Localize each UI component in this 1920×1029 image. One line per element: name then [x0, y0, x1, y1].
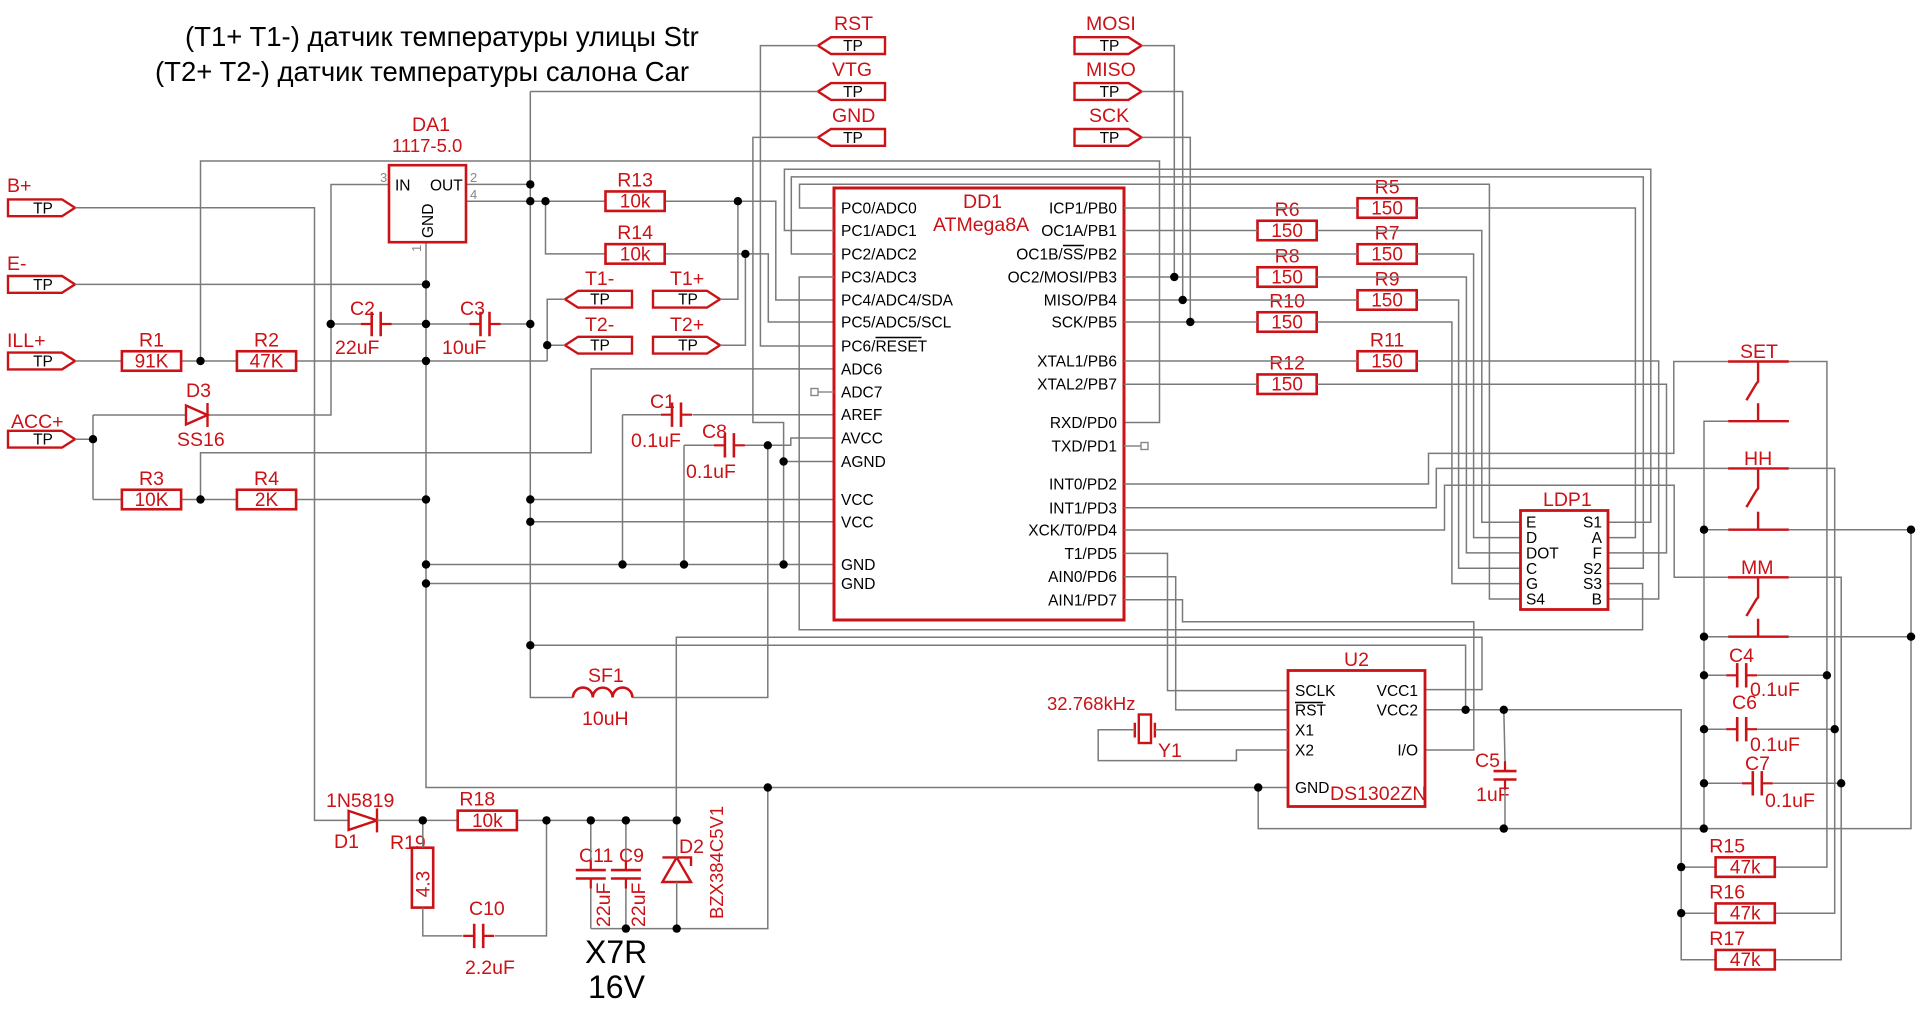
- junction: [734, 197, 742, 205]
- wire C8 right to AVCC: [745, 438, 834, 445]
- wire R10 to LDP1 G: [1317, 322, 1521, 584]
- svg-text:BZX384C5V1: BZX384C5V1: [706, 806, 727, 919]
- button MM: [1728, 577, 1789, 636]
- wire SCK TP down: [1142, 137, 1191, 322]
- wire Y1 to X2: [1098, 730, 1288, 761]
- wire T2- to ground line: [547, 344, 565, 346]
- resistor R11: [1358, 329, 1417, 372]
- svg-text:TP: TP: [1100, 84, 1120, 101]
- svg-text:47k: 47k: [1730, 858, 1761, 879]
- inductor SF1 10uH: [573, 688, 632, 698]
- svg-text:MISO: MISO: [1086, 59, 1136, 81]
- svg-text:R8: R8: [1275, 245, 1300, 267]
- svg-text:U2: U2: [1344, 649, 1369, 671]
- junction: [1700, 725, 1708, 733]
- junction: [419, 816, 427, 824]
- svg-text:TP: TP: [590, 338, 610, 355]
- junction: [526, 197, 534, 205]
- capacitor C4: [1726, 663, 1757, 687]
- resistor R19: [412, 848, 435, 908]
- wire C7 left: [1704, 782, 1742, 784]
- svg-text:ILL+: ILL+: [7, 330, 46, 352]
- wire Y1 to X1: [1155, 729, 1288, 731]
- svg-text:150: 150: [1371, 352, 1403, 373]
- wire E- to GND rail: [75, 283, 426, 285]
- svg-text:R6: R6: [1275, 199, 1300, 221]
- svg-text:R2: R2: [254, 329, 279, 351]
- svg-text:RST: RST: [834, 13, 873, 35]
- junction: [779, 560, 787, 568]
- svg-text:DD1: DD1: [963, 191, 1002, 213]
- svg-text:DS1302ZN: DS1302ZN: [1330, 783, 1426, 805]
- svg-text:R7: R7: [1375, 222, 1400, 244]
- junction: [618, 560, 626, 568]
- wire HH bottom right: [1788, 529, 1911, 531]
- svg-text:T2-: T2-: [585, 314, 614, 336]
- resistor R7: [1358, 222, 1417, 265]
- svg-text:10K: 10K: [135, 490, 169, 511]
- wire R1 to R2: [181, 360, 237, 362]
- svg-text:X1: X1: [1295, 723, 1314, 740]
- svg-text:R4: R4: [254, 468, 279, 490]
- svg-text:ADC6: ADC6: [841, 361, 882, 378]
- svg-text:C9: C9: [619, 845, 644, 867]
- wire T2+ up to SCL line: [720, 254, 745, 345]
- svg-text:D3: D3: [186, 380, 211, 402]
- svg-text:MM: MM: [1741, 557, 1774, 579]
- svg-text:D1: D1: [334, 831, 359, 853]
- svg-text:OC1A/PB1: OC1A/PB1: [1041, 223, 1117, 240]
- svg-text:R5: R5: [1375, 176, 1400, 198]
- wire R18 to battery node: [518, 819, 677, 821]
- junction: [526, 641, 534, 649]
- svg-text:0.1uF: 0.1uF: [1765, 790, 1815, 812]
- wire D2 top: [676, 820, 678, 857]
- resistor R14: [606, 222, 665, 265]
- wire PC3 to LDP1 S3: [799, 277, 1642, 630]
- svg-text:2K: 2K: [255, 490, 279, 511]
- svg-text:150: 150: [1271, 221, 1303, 242]
- wire ACC+ vertical: [92, 415, 94, 500]
- svg-text:D2: D2: [679, 836, 704, 858]
- junction: [1179, 296, 1187, 304]
- svg-text:ADC7: ADC7: [841, 385, 882, 402]
- wire C9 top: [625, 820, 627, 860]
- resistor R17: [1709, 928, 1774, 971]
- DD1 right pin labels: [1008, 201, 1118, 610]
- display LDP1: [1521, 511, 1609, 610]
- svg-text:10uH: 10uH: [582, 708, 629, 730]
- junction: [422, 357, 430, 365]
- svg-text:TP: TP: [678, 292, 698, 309]
- svg-text:VCC1: VCC1: [1377, 683, 1418, 700]
- svg-text:VCC: VCC: [841, 514, 874, 531]
- TXD no-connect marker: [1124, 443, 1148, 450]
- wire D1 to R18: [377, 819, 457, 821]
- svg-text:GND: GND: [420, 204, 437, 238]
- button HH: [1728, 468, 1789, 529]
- wire R13 to PC4/SDA: [664, 201, 834, 300]
- RTC U2 DS1302ZN: [1288, 671, 1425, 807]
- svg-text:TP: TP: [678, 338, 698, 355]
- wire PC1 to LDP1 S1: [784, 169, 1650, 522]
- svg-text:SET: SET: [1740, 341, 1778, 363]
- wire 5V to VCC: [530, 499, 834, 501]
- svg-text:1N5819: 1N5819: [326, 790, 394, 812]
- junction: [673, 924, 681, 932]
- test point ACC+: [8, 411, 75, 449]
- svg-text:T2+: T2+: [670, 314, 704, 336]
- junction: [526, 320, 534, 328]
- test point GND: [818, 105, 885, 147]
- resistor R2: [237, 329, 296, 372]
- wire RST TP to PC6/RESET: [760, 46, 834, 346]
- junction: [541, 197, 549, 205]
- wire pullup rail to R15: [1681, 866, 1716, 868]
- wire C4 right: [1757, 674, 1827, 676]
- wire OC1A to R6: [1124, 230, 1258, 232]
- junction: [1254, 783, 1262, 791]
- test point VTG: [818, 59, 885, 101]
- resistor R10: [1258, 290, 1317, 333]
- wire bottom gnd bus: [591, 928, 677, 930]
- junction: [526, 180, 534, 188]
- svg-text:R13: R13: [617, 169, 653, 191]
- wire branch to R14: [546, 201, 606, 254]
- wire ILL+ to R1: [75, 360, 123, 362]
- svg-text:R3: R3: [139, 468, 164, 490]
- resistor R1: [122, 329, 181, 372]
- junction: [1907, 633, 1915, 641]
- svg-text:SCK/PB5: SCK/PB5: [1052, 315, 1117, 332]
- svg-text:PC4/ADC4/SDA: PC4/ADC4/SDA: [841, 293, 954, 310]
- wire HH line to R16: [1775, 468, 1835, 913]
- wire C6 right: [1757, 728, 1835, 730]
- test point SCK: [1075, 105, 1142, 147]
- svg-text:DA1: DA1: [412, 114, 450, 136]
- wire pullup rail to R16: [1681, 912, 1716, 914]
- wire MISO to R9: [1124, 299, 1358, 301]
- wire MM bottom right: [1788, 636, 1911, 638]
- svg-text:S4: S4: [1526, 592, 1545, 609]
- svg-text:C5: C5: [1475, 750, 1500, 772]
- svg-text:R19: R19: [390, 832, 426, 854]
- capacitor C9: [611, 860, 641, 888]
- svg-text:TP: TP: [1100, 130, 1120, 147]
- wire R4 to GND rail: [296, 499, 426, 501]
- svg-text:22uF: 22uF: [593, 882, 615, 927]
- junction: [622, 924, 630, 932]
- wire T1+ up to SDA line: [720, 201, 738, 299]
- svg-text:47K: 47K: [250, 352, 284, 373]
- svg-text:10uF: 10uF: [442, 337, 487, 359]
- junction: [1700, 779, 1708, 787]
- resistor R16: [1709, 881, 1774, 924]
- svg-text:(T1+ T1-) датчик температуры: (T1+ T1-) датчик температуры улицы Str: [185, 21, 699, 52]
- capacitor C8: [714, 433, 745, 457]
- svg-text:2.2uF: 2.2uF: [465, 957, 515, 979]
- DD1 left pin labels: [841, 201, 954, 594]
- wire battery node to U2 VCC1: [676, 637, 1482, 820]
- svg-text:VCC2: VCC2: [1377, 703, 1418, 720]
- wire to D3 anode: [93, 414, 186, 416]
- junction: [779, 457, 787, 465]
- svg-text:SCLK: SCLK: [1295, 683, 1336, 700]
- svg-text:GND: GND: [1295, 780, 1329, 797]
- test point T1-: [565, 268, 632, 309]
- wire XCK/PD4 to MM button: [1124, 485, 1729, 577]
- junction: [196, 495, 204, 503]
- wire C2 left: [331, 323, 361, 325]
- svg-text:2: 2: [470, 170, 477, 185]
- svg-text:INT0/PD2: INT0/PD2: [1049, 477, 1117, 494]
- resistor R8: [1258, 245, 1317, 288]
- svg-text:R9: R9: [1375, 268, 1400, 290]
- svg-text:TP: TP: [33, 432, 53, 449]
- junction: [764, 783, 772, 791]
- svg-text:(T2+ T2-) датчик температуры: (T2+ T2-) датчик температуры салона Car: [155, 56, 689, 87]
- wire D3 cathode to DA1 IN: [208, 185, 390, 416]
- svg-text:AREF: AREF: [841, 407, 882, 424]
- svg-text:PC1/ADC1: PC1/ADC1: [841, 223, 917, 240]
- svg-text:TP: TP: [33, 277, 53, 294]
- svg-text:R1: R1: [139, 329, 164, 351]
- junction: [1700, 824, 1708, 832]
- svg-text:TXD/PD1: TXD/PD1: [1052, 439, 1117, 456]
- test point RST: [818, 13, 885, 55]
- junction: [741, 250, 749, 258]
- svg-text:PC0/ADC0: PC0/ADC0: [841, 201, 917, 218]
- wire U2 GND to right ground rail: [1258, 530, 1911, 829]
- svg-text:1117-5.0: 1117-5.0: [392, 135, 462, 156]
- junction: [673, 816, 681, 824]
- junction: [1700, 526, 1708, 534]
- junction: [1500, 824, 1508, 832]
- svg-text:XTAL1/PB6: XTAL1/PB6: [1037, 354, 1117, 371]
- junction: [1677, 863, 1685, 871]
- junction: [1186, 318, 1194, 326]
- svg-text:TP: TP: [33, 354, 53, 371]
- wire 5V to VCC2: [530, 521, 834, 523]
- junction: [196, 357, 204, 365]
- resistor R4: [237, 468, 296, 511]
- wire GND rail down and right to U2 GND: [426, 242, 1288, 788]
- wire R7 to LDP1 D: [1417, 254, 1521, 538]
- svg-text:AVCC: AVCC: [841, 431, 883, 448]
- test point T1+: [653, 268, 720, 309]
- svg-text:IN: IN: [395, 178, 411, 195]
- capacitor C5: [1494, 761, 1517, 789]
- wire SET bottom to ground rail: [1704, 421, 1729, 828]
- wire ICP1 to R5: [1124, 207, 1358, 209]
- svg-text:I/O: I/O: [1397, 743, 1418, 760]
- svg-text:OC2/MOSI/PB3: OC2/MOSI/PB3: [1008, 270, 1117, 287]
- wire VCC2 to pullup rail R17: [1425, 710, 1716, 960]
- wire XTAL1 to R11: [1124, 360, 1358, 362]
- svg-text:TP: TP: [843, 38, 863, 55]
- svg-text:4.3: 4.3: [414, 871, 435, 897]
- wire C1 left: [623, 414, 662, 416]
- microcontroller DD1 ATMega8A: [834, 188, 1124, 620]
- wire OC1B to R7: [1124, 253, 1358, 255]
- wire B+ to D1: [75, 208, 349, 821]
- junction: [1700, 633, 1708, 641]
- wire T1- down to ground line: [547, 299, 565, 361]
- junction: [327, 320, 335, 328]
- svg-text:C10: C10: [469, 898, 505, 920]
- svg-text:150: 150: [1271, 313, 1303, 334]
- svg-text:TP: TP: [843, 130, 863, 147]
- junction: [1677, 909, 1685, 917]
- svg-text:OC1B/SS/PB2: OC1B/SS/PB2: [1016, 247, 1117, 264]
- svg-text:4: 4: [470, 187, 477, 202]
- junction: [587, 816, 595, 824]
- resistor R13: [606, 169, 665, 212]
- svg-text:AIN1/PD7: AIN1/PD7: [1048, 592, 1117, 609]
- svg-text:R17: R17: [1709, 928, 1745, 950]
- svg-text:RXD/PD0: RXD/PD0: [1050, 415, 1118, 432]
- junction: [422, 495, 430, 503]
- svg-text:GND: GND: [841, 557, 875, 574]
- svg-text:XCK/T0/PD4: XCK/T0/PD4: [1028, 523, 1117, 540]
- wire MM bottom left: [1704, 636, 1729, 638]
- wire MISO TP down: [1142, 92, 1183, 301]
- svg-text:C2: C2: [350, 298, 375, 320]
- svg-text:ACC+: ACC+: [11, 411, 64, 433]
- wire INT0/PD2 to SET button: [1124, 362, 1729, 485]
- junction: [422, 320, 430, 328]
- svg-text:TP: TP: [843, 84, 863, 101]
- svg-text:MOSI: MOSI: [1086, 13, 1136, 35]
- wire ground hook to zener bus: [677, 788, 768, 929]
- svg-text:SF1: SF1: [588, 665, 624, 687]
- svg-text:C7: C7: [1745, 753, 1770, 775]
- svg-text:C8: C8: [702, 421, 727, 443]
- svg-text:47k: 47k: [1730, 950, 1761, 971]
- svg-text:AIN0/PD6: AIN0/PD6: [1048, 569, 1117, 586]
- svg-text:C1: C1: [650, 391, 675, 413]
- wire VTG to 5V rail: [530, 91, 818, 93]
- wire R3 to R4: [182, 499, 237, 501]
- wire C7 right: [1773, 782, 1841, 784]
- svg-text:10k: 10k: [472, 811, 503, 832]
- wire GND rail to T sensor return: [426, 360, 547, 362]
- button SET: [1728, 362, 1789, 422]
- svg-text:RST: RST: [1295, 703, 1327, 720]
- junction: [543, 341, 551, 349]
- svg-text:PC2/ADC2: PC2/ADC2: [841, 247, 917, 264]
- test point MOSI: [1075, 13, 1142, 55]
- wire D2 bottom: [676, 882, 678, 929]
- svg-text:T1-: T1-: [585, 268, 614, 290]
- junction: [764, 441, 772, 449]
- svg-text:R15: R15: [1709, 835, 1745, 857]
- wire C1 to GND line: [622, 415, 624, 565]
- svg-text:T1/PD5: T1/PD5: [1064, 546, 1117, 563]
- svg-text:PC6/RESET: PC6/RESET: [841, 339, 928, 356]
- test point MISO: [1075, 59, 1142, 101]
- junction: [1170, 273, 1178, 281]
- svg-text:10k: 10k: [620, 244, 651, 265]
- junction: [1500, 706, 1508, 714]
- wire C6 left: [1704, 728, 1726, 730]
- wire 5V rail vertical to SF1: [530, 92, 573, 698]
- wire R12 to LDP1 F: [1317, 384, 1667, 553]
- svg-text:R14: R14: [617, 222, 653, 244]
- junction: [422, 280, 430, 288]
- svg-text:PC5/ADC5/SCL: PC5/ADC5/SCL: [841, 315, 952, 332]
- svg-text:R12: R12: [1269, 352, 1305, 374]
- junction: [1700, 671, 1708, 679]
- wire ACC+ tip: [75, 438, 93, 440]
- junction: [542, 816, 550, 824]
- wire C9 bottom: [625, 889, 627, 929]
- wire PC0 to LDP1 S4: [800, 184, 1521, 599]
- svg-text:22uF: 22uF: [628, 882, 650, 927]
- wire OC2/MOSI to R8: [1124, 276, 1258, 278]
- svg-text:HH: HH: [1744, 448, 1772, 470]
- svg-text:R18: R18: [459, 789, 495, 811]
- svg-text:150: 150: [1371, 245, 1403, 266]
- svg-text:47k: 47k: [1730, 904, 1761, 925]
- wire SCK to R10: [1124, 321, 1258, 323]
- svg-text:10k: 10k: [620, 192, 651, 213]
- resistor R18: [458, 789, 517, 832]
- wire SET line to R15: [1775, 362, 1827, 868]
- diode D1 1N5819: [349, 808, 377, 832]
- wire AIN1/PD7 to U2 I/O: [1124, 600, 1474, 750]
- wire R2 to GND rail: [296, 360, 426, 362]
- wire R9 to LDP1 C: [1417, 300, 1521, 568]
- wire XTAL2 to R12: [1124, 383, 1258, 385]
- svg-text:AGND: AGND: [841, 454, 886, 471]
- svg-text:Y1: Y1: [1158, 740, 1182, 762]
- svg-text:XTAL2/PB7: XTAL2/PB7: [1037, 377, 1117, 394]
- capacitor C2: [361, 312, 392, 336]
- svg-text:OUT: OUT: [430, 178, 463, 195]
- crystal Y1 32.768kHz: [1135, 715, 1155, 744]
- svg-text:0.1uF: 0.1uF: [631, 430, 681, 452]
- svg-text:ATMega8A: ATMega8A: [933, 214, 1029, 236]
- wire node to R19: [422, 820, 424, 847]
- svg-text:SS16: SS16: [177, 429, 225, 451]
- junction: [1831, 725, 1839, 733]
- svg-text:150: 150: [1271, 268, 1303, 289]
- wire MM line to R17: [1775, 577, 1842, 959]
- svg-text:B+: B+: [7, 175, 31, 197]
- wire HH bottom left: [1704, 529, 1729, 531]
- wire to R3: [93, 499, 121, 501]
- svg-text:150: 150: [1371, 199, 1403, 220]
- wire AGND pin: [784, 461, 834, 463]
- svg-text:3: 3: [380, 170, 387, 185]
- svg-text:B: B: [1592, 592, 1602, 609]
- svg-text:PC3/ADC3: PC3/ADC3: [841, 270, 917, 287]
- svg-text:X2: X2: [1295, 743, 1314, 760]
- capacitor C1: [661, 403, 692, 427]
- wire INT1/PD3 to HH button: [1124, 468, 1729, 507]
- wire GND line 2: [426, 583, 834, 585]
- svg-text:R11: R11: [1370, 329, 1404, 351]
- svg-text:GND: GND: [832, 105, 875, 127]
- svg-text:VTG: VTG: [832, 59, 872, 81]
- svg-text:16V: 16V: [588, 969, 646, 1005]
- ADC7 no-connect marker: [811, 389, 834, 396]
- wire C8 left to GND line: [683, 445, 685, 565]
- svg-text:1: 1: [409, 245, 424, 252]
- svg-text:C11: C11: [579, 845, 613, 867]
- wire GND line 1: [426, 564, 834, 566]
